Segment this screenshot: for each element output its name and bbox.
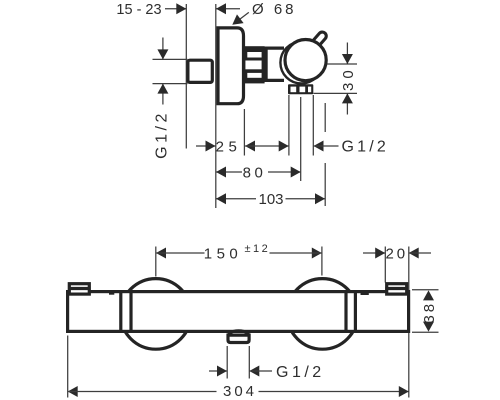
svg-text:±12: ±12 xyxy=(245,243,271,255)
dimension G1/2 right xyxy=(279,95,389,156)
outlet nipple xyxy=(228,335,249,342)
lever stub xyxy=(312,36,323,48)
svg-text:25: 25 xyxy=(216,138,242,155)
svg-text:38: 38 xyxy=(421,301,438,324)
svg-text:80: 80 xyxy=(243,164,267,181)
dimension 103 xyxy=(216,103,325,208)
handle skirt circle xyxy=(280,42,322,84)
svg-text:30: 30 xyxy=(340,66,357,91)
wire wall face extension line xyxy=(215,4,217,208)
joint ring left xyxy=(121,292,131,332)
escutcheon side view xyxy=(218,28,244,104)
svg-text:150: 150 xyxy=(204,245,243,262)
svg-text:20: 20 xyxy=(385,245,408,262)
seam tick right xyxy=(361,293,369,295)
svg-text:G1/2: G1/2 xyxy=(154,110,171,159)
svg-text:304: 304 xyxy=(223,383,257,400)
wall union box xyxy=(188,60,212,82)
dimension 150 +-12 xyxy=(156,243,322,277)
svg-text:G1/2: G1/2 xyxy=(276,364,325,381)
joint ring right xyxy=(346,292,355,332)
svg-text:Ø 68: Ø 68 xyxy=(252,1,297,18)
union nut ribs xyxy=(244,46,264,83)
wall tab left xyxy=(68,284,91,294)
label diameter 68 xyxy=(229,1,297,29)
wire wall back line xyxy=(185,4,187,149)
dimension 80 xyxy=(216,97,301,181)
dimension 30 xyxy=(314,43,358,115)
dimension 20 xyxy=(363,245,431,397)
seam tick left xyxy=(109,293,114,295)
dimension G1/2 left xyxy=(153,38,188,159)
valve body xyxy=(266,48,284,80)
dimension G1/2 bottom xyxy=(209,346,325,381)
wall tab right xyxy=(385,284,408,294)
dimension 25 xyxy=(196,109,289,156)
svg-text:15 - 23: 15 - 23 xyxy=(116,2,161,18)
dimension 15-23 xyxy=(116,2,240,18)
mixer bar body xyxy=(68,292,409,332)
dimension 304 xyxy=(68,336,409,400)
escutcheon circle left xyxy=(121,279,192,350)
svg-text:103: 103 xyxy=(258,191,283,208)
outlet collar arc xyxy=(228,331,250,334)
outlet thread side view xyxy=(288,84,313,94)
handle circle xyxy=(285,40,326,81)
dimension 38 xyxy=(412,290,439,332)
escutcheon circle right xyxy=(287,279,358,350)
svg-text:G1/2: G1/2 xyxy=(342,139,390,156)
